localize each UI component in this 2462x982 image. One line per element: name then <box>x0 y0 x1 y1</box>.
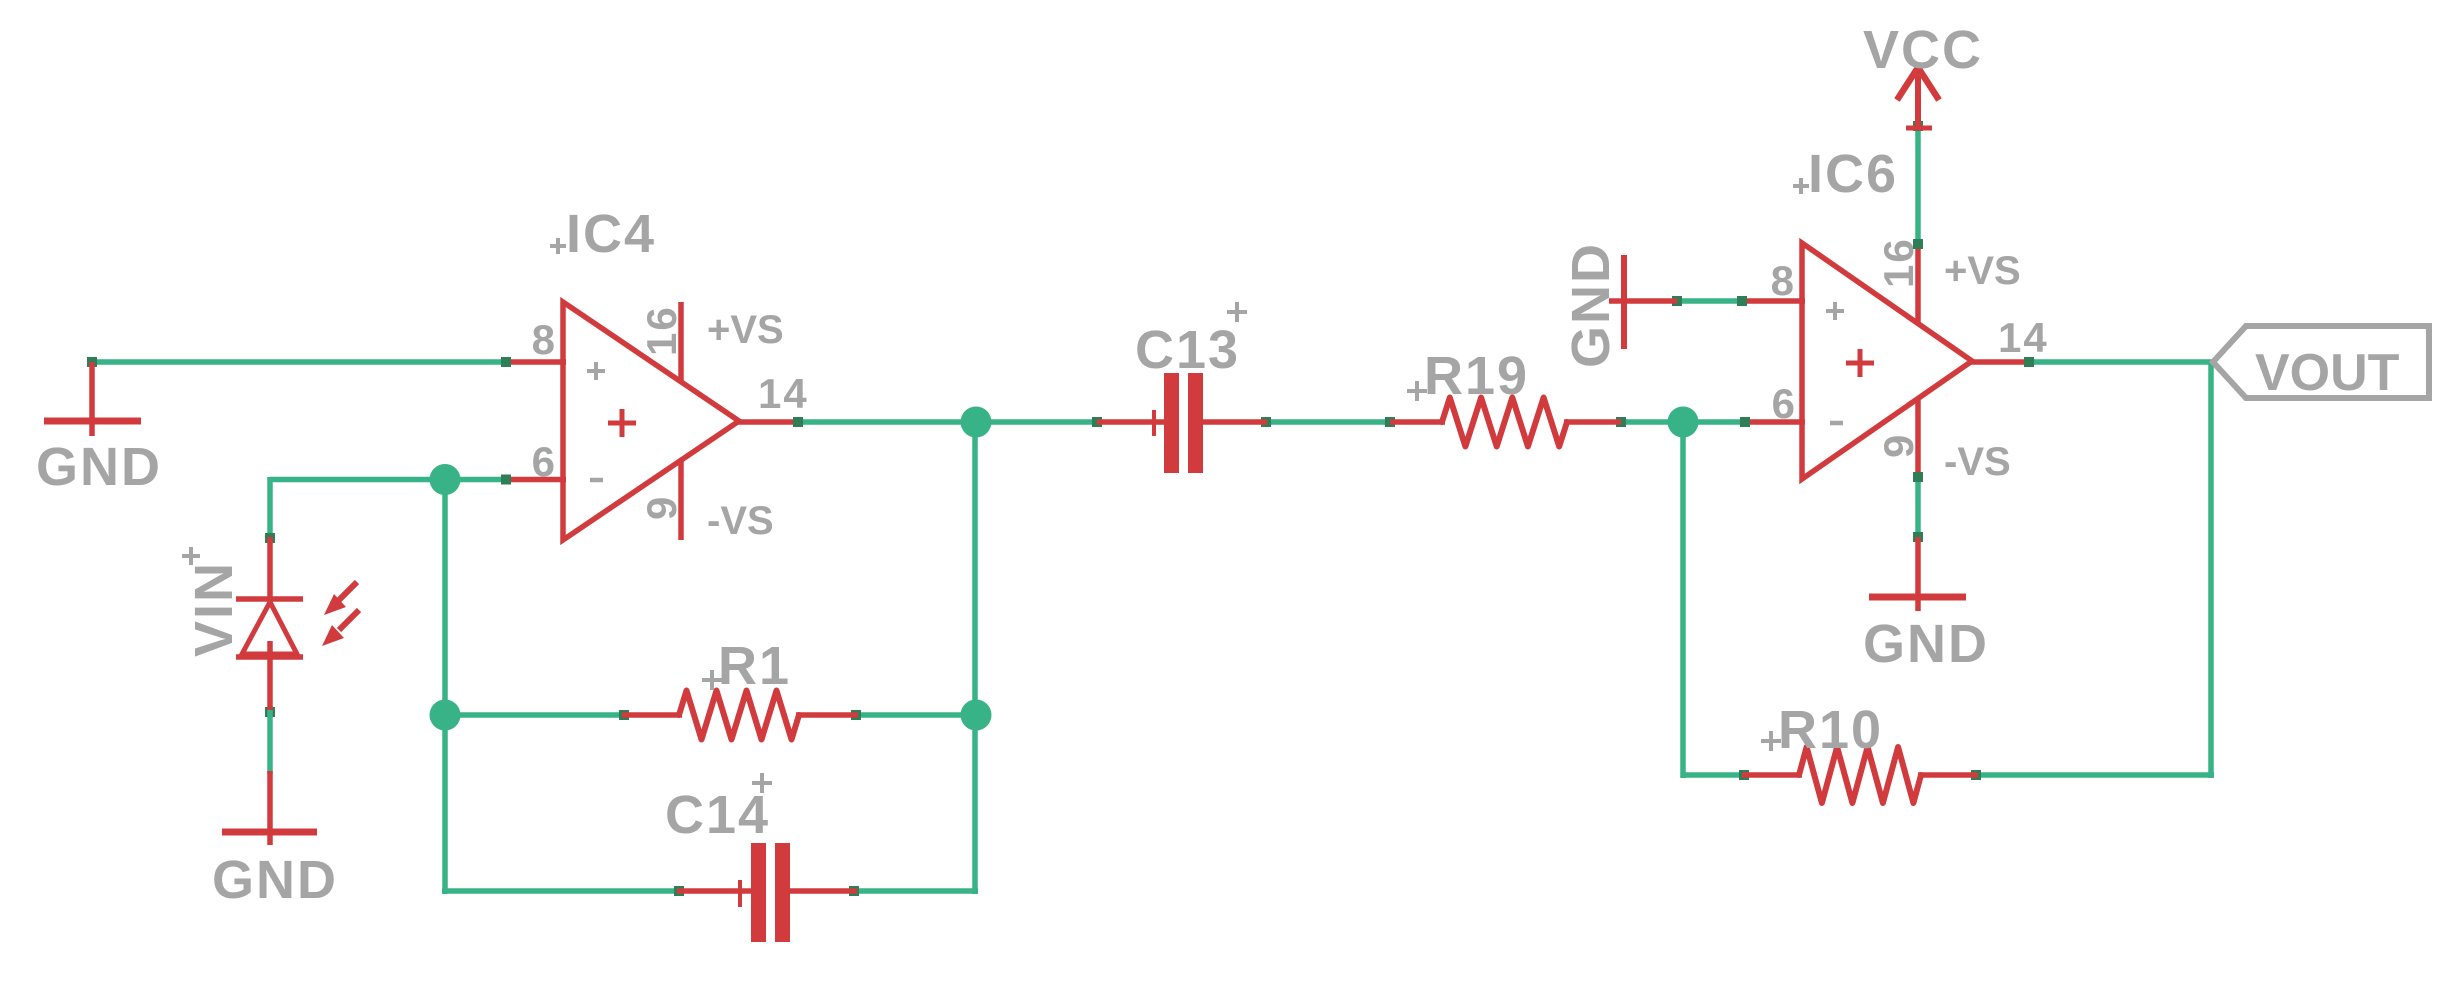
capacitor C14 polarity tick <box>738 880 742 907</box>
resistor R10 zigzag <box>1799 747 1921 803</box>
photodiode D1 triangle <box>242 602 297 654</box>
photodiode D1 lead bottom <box>267 641 273 713</box>
wire output node vertical x980 <box>972 419 978 894</box>
capacitor C13 polarity tick <box>1152 410 1156 436</box>
photodiode light arrow 1 <box>335 582 357 604</box>
wire C14 bottom left <box>442 888 681 894</box>
svg-text:GND: GND <box>212 850 338 910</box>
resistor R19 lead left <box>1390 419 1445 425</box>
capacitor C14 lead left <box>677 888 753 894</box>
capacitor C13 plate right <box>1188 373 1203 473</box>
photodiode D1 anode bar <box>236 654 303 660</box>
wire R10 right <box>1974 772 2214 778</box>
capacitor C14 lead right <box>788 888 857 894</box>
op-amp IC6 noninverting mark <box>1826 309 1844 313</box>
svg-text:VIN: VIN <box>184 561 244 657</box>
ground GND (IC6 pin 9) stem <box>1915 537 1921 611</box>
resistor R1 zigzag <box>679 691 799 740</box>
op-amp IC6 pin 6 stub <box>1744 419 1805 425</box>
op-amp IC4 pin 14 output stub <box>736 419 800 425</box>
resistor R1 lead left <box>622 712 682 718</box>
resistor R19 lead right <box>1564 419 1621 425</box>
op-amp IC6 label origin cross <box>1793 184 1809 188</box>
op-amp IC6 pin 16 (+VS) stub <box>1915 244 1921 324</box>
svg-text:VCC: VCC <box>1863 20 1983 80</box>
svg-text:6: 6 <box>532 438 557 485</box>
wire R10 left <box>1683 772 1746 778</box>
resistor R10 lead right <box>1918 772 1978 778</box>
op-amp IC4 pin 9 (-VS) stub <box>678 459 684 540</box>
resistor R19 zigzag <box>1442 398 1567 447</box>
capacitor C14 origin cross <box>752 781 772 785</box>
photodiode D1 cathode bar <box>236 596 303 602</box>
svg-text:-VS: -VS <box>1944 440 2011 484</box>
wire C13 to R19 <box>1264 419 1392 425</box>
capacitor C14 plate right <box>775 843 790 942</box>
svg-text:R1: R1 <box>718 636 791 696</box>
wire R1 right <box>854 712 978 718</box>
ground GND (photodiode) bar <box>222 829 317 836</box>
op-amp IC4 inverting mark <box>590 478 603 483</box>
svg-text:GND: GND <box>1863 614 1989 674</box>
svg-text:VOUT: VOUT <box>2255 344 2400 402</box>
svg-text:R19: R19 <box>1424 346 1529 406</box>
wire VCC to IC6 pin 16 <box>1915 128 1921 246</box>
svg-text:C13: C13 <box>1135 320 1240 380</box>
svg-text:GND: GND <box>36 437 162 497</box>
svg-text:-VS: -VS <box>707 499 774 543</box>
ground GND (IC6 pin 8) stem <box>1609 298 1677 304</box>
svg-text:8: 8 <box>1771 257 1796 304</box>
resistor R1 lead right <box>796 712 858 718</box>
wire R19 to IC6 pin 6 <box>1619 419 1747 425</box>
wire overlap marks <box>501 357 511 367</box>
svg-text:14: 14 <box>1998 314 2049 361</box>
svg-text:9: 9 <box>1875 433 1922 458</box>
net label VIN plus mark <box>182 554 200 558</box>
wire GND to IC6 pin 8 <box>1674 298 1747 304</box>
op-amp IC4 label origin cross <box>550 244 566 248</box>
resistor R10 origin cross <box>1761 739 1781 743</box>
wire C14 bottom right <box>852 888 978 894</box>
ground GND (IC6 pin 8) bar <box>1621 255 1627 349</box>
svg-text:C14: C14 <box>665 785 770 845</box>
svg-text:IC6: IC6 <box>1808 144 1898 204</box>
wire GND to IC4 pin 8 <box>89 359 509 365</box>
svg-text:14: 14 <box>758 370 809 417</box>
wire IC4 output to C13 <box>796 419 1099 425</box>
op-amp IC6 inverting mark <box>1830 421 1843 426</box>
junction node R1 right (980,715) <box>961 700 992 731</box>
capacitor C13 lead left <box>1097 419 1166 425</box>
op-amp IC4 pin 6 stub <box>504 477 566 483</box>
op-amp IC6 pin 9 (-VS) stub <box>1915 398 1921 477</box>
ground GND (top left) stem <box>89 362 95 436</box>
svg-text:6: 6 <box>1772 380 1797 427</box>
wire photodiode to GND <box>267 710 273 774</box>
svg-text:+VS: +VS <box>1944 249 2021 293</box>
ground GND (top left) bar <box>44 418 141 425</box>
junction node IC4 output (980,422) <box>961 407 992 438</box>
op-amp IC6 red plus <box>1846 361 1874 366</box>
capacitor C14 plate left <box>751 843 766 942</box>
junction node IC4 inverting (445,480) <box>430 464 461 495</box>
op-amp IC4 triangle <box>563 302 739 540</box>
op-amp IC4 pin 16 (+VS) stub <box>678 302 684 383</box>
wire photodiode to IC4 pin 6 horizontal <box>270 477 509 483</box>
svg-text:R10: R10 <box>1778 700 1883 760</box>
wire R1 left <box>445 712 626 718</box>
op-amp IC6 pin 14 output stub <box>1969 359 2031 365</box>
op-amp IC4 noninverting mark <box>587 369 605 373</box>
resistor R1 origin cross <box>702 678 722 682</box>
power VCC arrow <box>1915 66 1921 130</box>
capacitor C13 lead right <box>1202 419 1267 425</box>
svg-text:16: 16 <box>638 305 685 356</box>
photodiode D1 lead top <box>267 537 273 602</box>
wire feedback vertical x1683 <box>1680 422 1686 778</box>
resistor R10 lead left <box>1742 772 1802 778</box>
ground GND (IC6 pin 9) bar <box>1869 594 1966 601</box>
op-amp IC6 triangle <box>1802 243 1972 479</box>
power VCC origin cross <box>1906 126 1932 131</box>
op-amp IC6 pin 8 stub <box>1744 298 1805 304</box>
op-amp IC4 red plus <box>608 421 636 426</box>
photodiode light arrow 2 <box>339 610 359 630</box>
junction node R1 left (445,715) <box>430 700 461 731</box>
capacitor C13 origin cross <box>1227 310 1247 314</box>
op-amp IC4 pin 8 stub <box>504 359 566 365</box>
svg-text:+VS: +VS <box>707 308 784 352</box>
wire IC6 pin 9 to GND <box>1915 474 1921 539</box>
svg-text:IC4: IC4 <box>566 204 656 264</box>
ground GND (photodiode) stem <box>267 771 273 845</box>
capacitor C13 plate left <box>1164 373 1179 473</box>
svg-text:9: 9 <box>638 495 685 520</box>
wire IC6 output to VOUT <box>2028 359 2214 365</box>
resistor R19 origin cross <box>1407 389 1427 393</box>
junction node IC6 inverting (1683,422) <box>1668 407 1699 438</box>
svg-text:8: 8 <box>532 316 557 363</box>
wire photodiode vertical drop <box>267 477 273 540</box>
svg-text:GND: GND <box>1561 242 1621 368</box>
wire inverting node vertical x445 <box>442 480 448 895</box>
net flag VOUT outline <box>2213 326 2429 398</box>
wire VOUT feedback vertical <box>2208 362 2214 778</box>
